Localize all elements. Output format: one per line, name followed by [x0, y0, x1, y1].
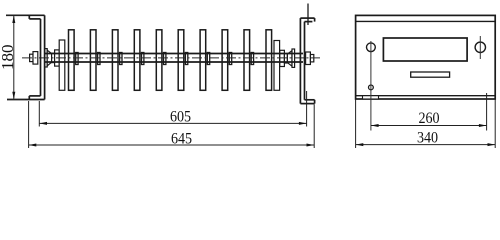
inspection window	[383, 38, 467, 61]
dimension 260 extension line right	[486, 93, 488, 131]
right bracket	[300, 18, 314, 104]
spacer washer after fin 4	[142, 53, 144, 65]
right end disc large	[274, 41, 280, 91]
dimension 340 extension line right	[494, 99, 496, 148]
left mounting hole	[367, 43, 376, 52]
center axis line (dash-dot)	[22, 57, 320, 59]
left washer at web	[45, 49, 48, 67]
enclosure lid seam	[356, 20, 496, 22]
dimension 340 extension line left	[355, 99, 357, 148]
lower small hole	[369, 85, 374, 90]
fin plate 3	[112, 30, 118, 91]
enclosure box (end view)	[356, 15, 496, 99]
svg-text:645: 645	[171, 131, 192, 148]
left end disc large	[59, 40, 65, 90]
nameplate slot	[411, 72, 450, 77]
dimension 645 line	[29, 144, 315, 146]
spacer washer after fin 8	[229, 53, 231, 65]
spacer washer after fin 1	[76, 53, 78, 65]
fin plate 5	[156, 30, 162, 91]
right hole center line	[479, 36, 481, 59]
dimension 645 extension lines	[29, 101, 315, 148]
dimension 340 line	[356, 144, 496, 146]
fin plate 6	[178, 30, 184, 91]
left clamping nut	[33, 52, 38, 65]
svg-text:605: 605	[170, 109, 191, 126]
right end disc small	[280, 50, 285, 66]
left hole center line	[370, 41, 372, 131]
right shaft end stub	[310, 55, 313, 62]
fin plate 7	[200, 30, 206, 91]
left small bushing	[52, 53, 55, 62]
svg-text:180: 180	[0, 44, 17, 69]
right washer at web	[292, 49, 295, 67]
fin plate 1	[69, 30, 75, 91]
right small bushing	[284, 54, 287, 63]
fin plate 10	[266, 30, 272, 91]
left shaft end stub	[30, 54, 33, 61]
left end disc small	[55, 50, 60, 66]
spacer washer after fin 7	[207, 53, 209, 65]
spacer washer after fin 9	[251, 53, 253, 65]
fin plate 2	[90, 30, 96, 91]
dimension 605 extension lines	[39, 91, 306, 127]
fin plate 8	[222, 30, 228, 91]
right clamping nut	[306, 52, 311, 65]
mounting foot	[363, 96, 379, 99]
dimension 180 extension lines	[6, 15, 27, 99]
right taper cone	[287, 51, 292, 67]
left taper cone	[47, 50, 51, 66]
fin plate 4	[134, 30, 140, 91]
dimension 180 line	[13, 16, 15, 99]
right mounting hole	[475, 42, 485, 52]
svg-text:260: 260	[418, 110, 439, 127]
spacer washer after fin 6	[185, 53, 187, 65]
spacer washer after fin 3	[120, 53, 122, 65]
svg-text:340: 340	[417, 130, 438, 147]
shaft	[44, 54, 303, 63]
enclosure base seam	[356, 95, 496, 97]
left bracket	[6, 15, 45, 99]
fin plate 9	[244, 30, 250, 91]
right bracket hanger bolt	[307, 4, 309, 26]
dimension 605 line	[39, 122, 306, 124]
spacer washer after fin 5	[164, 53, 166, 65]
spacer washer after fin 2	[98, 53, 100, 65]
dimension 260 line	[371, 125, 487, 127]
